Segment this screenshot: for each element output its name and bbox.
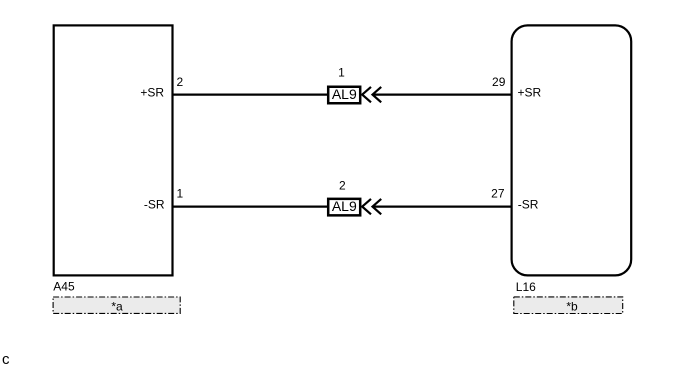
wire +SR from chevron to L16 pin 29 <box>373 93 512 95</box>
svg-text:L16: L16 <box>516 280 536 294</box>
svg-text:*a: *a <box>111 299 123 313</box>
note box *b <box>514 297 623 314</box>
svg-text:2: 2 <box>339 178 346 192</box>
wire +SR from A45 pin 2 to connector AL9 <box>173 93 329 95</box>
svg-text:-SR: -SR <box>144 198 165 212</box>
connector AL9 box on -SR wire <box>328 199 360 216</box>
svg-text:AL9: AL9 <box>332 198 357 214</box>
sensor L16 outline <box>512 25 632 275</box>
svg-text:AL9: AL9 <box>332 86 357 102</box>
ECU A45 outline <box>54 25 173 275</box>
svg-text:-SR: -SR <box>518 198 539 212</box>
svg-text:29: 29 <box>492 75 506 89</box>
double chevron connector symbol on +SR wire <box>362 87 381 102</box>
svg-text:+SR: +SR <box>518 86 542 100</box>
svg-text:2: 2 <box>177 75 184 89</box>
wire -SR from chevron to L16 pin 27 <box>373 206 512 208</box>
svg-text:1: 1 <box>338 65 345 79</box>
svg-text:+SR: +SR <box>140 86 164 100</box>
connector AL9 box on +SR wire <box>328 87 360 104</box>
svg-text:27: 27 <box>491 187 505 201</box>
svg-text:1: 1 <box>177 187 184 201</box>
svg-text:*b: *b <box>566 300 578 314</box>
svg-text:A45: A45 <box>53 280 75 294</box>
svg-text:c: c <box>2 351 10 366</box>
note box *a <box>53 297 180 313</box>
double chevron connector symbol on -SR wire <box>362 199 381 214</box>
wire -SR from A45 pin 1 to connector AL9 <box>173 206 329 208</box>
